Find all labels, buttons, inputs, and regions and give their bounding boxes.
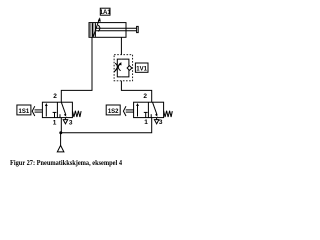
svg-text:1: 1 (53, 119, 57, 126)
svg-text:1S2: 1S2 (108, 109, 119, 115)
svg-text:1V1: 1V1 (136, 66, 147, 72)
svg-text:1A1: 1A1 (100, 10, 112, 16)
svg-text:3: 3 (69, 119, 73, 126)
svg-text:1: 1 (144, 119, 148, 126)
svg-text:1S1: 1S1 (19, 109, 30, 115)
svg-text:2: 2 (53, 93, 57, 100)
svg-text:2: 2 (143, 93, 147, 100)
svg-text:3: 3 (159, 119, 163, 126)
svg-text:Figur 27: Pneumatikkskjema, ek: Figur 27: Pneumatikkskjema, eksempel 4 (10, 159, 122, 167)
